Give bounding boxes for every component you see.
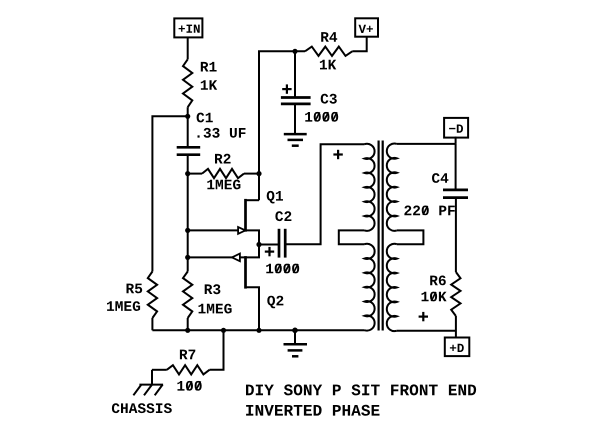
node F (Q2 drain/rail) bbox=[256, 328, 261, 333]
label R1 bbox=[201, 62, 217, 72]
transistor Q2 bbox=[246, 245, 260, 258]
label R2 bbox=[215, 154, 231, 164]
wire R1 to node A bbox=[187, 107, 189, 147]
capacitor C2 bbox=[259, 244, 278, 246]
polarity + (C2) bbox=[265, 251, 274, 253]
transformer secondary lower winding bbox=[387, 244, 397, 331]
node A (R1/C1/R5) bbox=[185, 114, 190, 119]
terminal -D bbox=[444, 118, 468, 138]
wire C1 to node B bbox=[187, 155, 189, 174]
wire R3 to ground rail bbox=[187, 318, 189, 330]
primary jog bbox=[339, 230, 365, 244]
label R7 bbox=[180, 350, 195, 360]
wire -D stub bbox=[455, 137, 457, 144]
wire +IN to R1 bbox=[187, 37, 189, 59]
resistor R6 bbox=[451, 272, 460, 316]
node B (C1/R2/gate rail) bbox=[185, 171, 190, 176]
resistor R4 bbox=[305, 47, 352, 56]
ground rail bbox=[152, 329, 364, 331]
wire node A to R5 bbox=[152, 116, 187, 271]
resistor R7 bbox=[210, 330, 224, 370]
label R6 bbox=[430, 276, 446, 286]
label 1MEG (R2) bbox=[207, 180, 240, 190]
transformer core bbox=[378, 141, 380, 331]
node C (R2/V+ rail) bbox=[256, 171, 261, 176]
resistor R5 bbox=[148, 272, 157, 319]
resistor R2 bbox=[202, 169, 244, 178]
title line 1 bbox=[246, 384, 476, 395]
polarity + (primary) bbox=[333, 153, 342, 155]
node ground (rail) bbox=[292, 328, 298, 334]
chassis ground bbox=[151, 370, 153, 385]
label 1000 (C3) bbox=[305, 112, 338, 122]
wire node B to R2 bbox=[188, 173, 202, 175]
label Q1 bbox=[267, 191, 283, 204]
node G (C3 tap) bbox=[292, 49, 297, 54]
wire R4 to V+ bbox=[352, 37, 366, 52]
gate rail wire bbox=[187, 174, 189, 272]
wire R5 to ground rail bbox=[151, 318, 153, 330]
label 1MEG (R3) bbox=[199, 304, 232, 314]
terminal V+ bbox=[355, 18, 378, 36]
ground (C3) bbox=[284, 133, 307, 136]
node E (Q1 src/C2/Q2 src) bbox=[256, 242, 261, 247]
label 10K (R6) bbox=[422, 292, 447, 302]
label 1K (R1) bbox=[201, 80, 217, 90]
title line 2 bbox=[246, 405, 379, 416]
label R4 bbox=[321, 32, 337, 42]
ground (rail) bbox=[294, 330, 296, 344]
resistor R3 bbox=[183, 272, 192, 319]
polarity + (C3) bbox=[282, 88, 291, 90]
node R7 tap bbox=[221, 328, 226, 333]
capacitor C1 bbox=[177, 146, 201, 149]
wire V+ rail to Q1 drain bbox=[259, 51, 305, 200]
transistor Q1 bbox=[246, 199, 260, 201]
label C2 bbox=[275, 211, 291, 221]
label R5 bbox=[127, 284, 143, 294]
label 220 PF (C4) bbox=[404, 206, 454, 216]
label C4 bbox=[432, 173, 448, 183]
transformer primary upper winding bbox=[365, 144, 375, 231]
label 1MEG (R5) bbox=[107, 301, 140, 311]
label .33 UF (C1) bbox=[198, 128, 246, 138]
node D1 (Q1 gate tap) bbox=[185, 228, 190, 233]
label Q2 bbox=[267, 296, 283, 309]
label CHASSIS bbox=[112, 403, 172, 413]
terminal +D bbox=[445, 338, 470, 357]
node R3/rail bbox=[185, 328, 190, 333]
transformer primary lower winding bbox=[365, 244, 375, 331]
polarity + (secondary) bbox=[419, 316, 428, 318]
wire C2 to primary top bbox=[286, 144, 365, 244]
node D2 (Q2 gate tap) bbox=[185, 255, 190, 260]
capacitor C3 bbox=[294, 51, 296, 97]
wire R2 to node C bbox=[244, 173, 259, 175]
label 1K (R4) bbox=[320, 60, 336, 70]
label 1000 (C2) bbox=[266, 264, 299, 274]
terminal +IN bbox=[174, 18, 202, 37]
capacitor C4 bbox=[455, 144, 457, 190]
secondary top lead bbox=[397, 143, 456, 145]
resistor R1 bbox=[183, 59, 192, 107]
secondary jog bbox=[397, 230, 424, 244]
label C1 bbox=[197, 113, 213, 123]
label R3 bbox=[205, 284, 221, 294]
secondary bottom lead bbox=[397, 330, 456, 332]
wire R6 to +D bbox=[455, 316, 457, 338]
label C3 bbox=[321, 94, 337, 104]
label 100 (R7) bbox=[177, 381, 201, 391]
transformer secondary upper winding bbox=[387, 144, 397, 231]
